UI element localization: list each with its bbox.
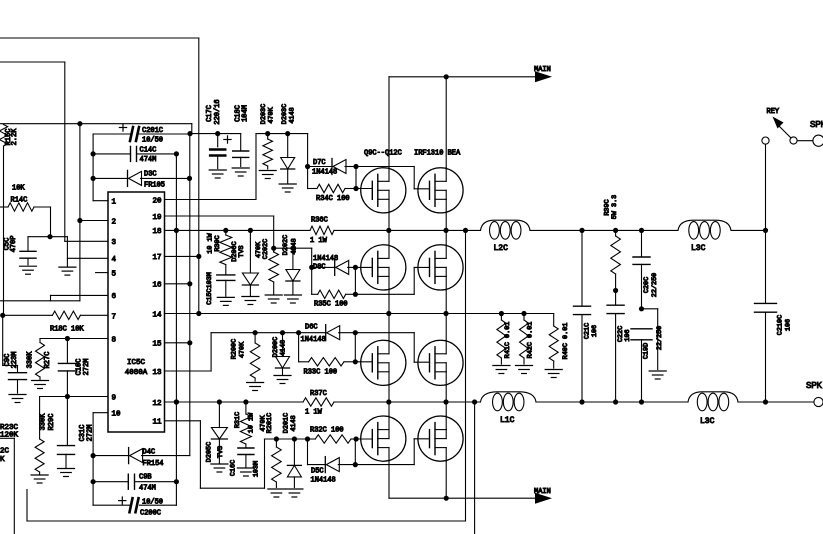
wire pair4 gate node	[355, 439, 372, 465]
wire pin11 jog	[165, 421, 265, 488]
wire pin10 rail	[91, 413, 109, 506]
label IC5C	[125, 359, 148, 377]
ground C202C	[265, 295, 282, 303]
resistor C202C 470K	[269, 248, 279, 294]
svg-text:C16C: C16C	[230, 460, 238, 476]
wire pair2 feed row	[271, 246, 312, 251]
wire bus402 to SPK	[766, 401, 814, 403]
svg-text:L3C: L3C	[691, 244, 706, 253]
svg-text:15: 15	[152, 341, 162, 349]
ground R201C	[268, 489, 285, 497]
wire switch to SPK	[797, 140, 813, 142]
svg-text:L1C: L1C	[500, 416, 515, 425]
wire top bus C	[0, 123, 192, 125]
wire pin1 rail	[91, 134, 109, 201]
ground C5C	[20, 266, 37, 274]
svg-text:330K: 330K	[40, 413, 48, 431]
svg-text:103M: 103M	[252, 461, 260, 477]
diode D205C TVS	[211, 402, 227, 463]
svg-text:D7C: D7C	[313, 159, 326, 167]
svg-text:10K: 10K	[12, 185, 25, 193]
svg-text:D3C: D3C	[144, 171, 157, 179]
svg-text:470P: 470P	[10, 236, 18, 253]
label R22C fragment	[0, 448, 10, 465]
junction bus314	[521, 311, 526, 316]
wire pair1 gate node	[356, 167, 372, 189]
svg-text:2: 2	[112, 218, 117, 226]
junction bus230	[248, 228, 253, 233]
svg-text:R37C: R37C	[310, 390, 327, 398]
label D6C	[301, 324, 326, 345]
label D206C TVS	[231, 241, 246, 261]
svg-text:220/16: 220/16	[214, 99, 222, 124]
svg-text:14: 14	[152, 311, 162, 319]
label R41C	[504, 322, 512, 359]
label C10C	[76, 359, 91, 376]
diode D4C	[93, 448, 190, 464]
wire pair4 gate2 jog	[355, 439, 429, 465]
wire pair3 feed row	[211, 330, 326, 335]
wire pair3 gate2 jog	[355, 333, 429, 363]
label Q9C--Q12C	[364, 150, 402, 158]
label REY	[767, 108, 780, 116]
resistor R34C	[308, 184, 359, 192]
svg-text:R36C: R36C	[311, 217, 328, 225]
capacitor C17C	[210, 134, 231, 169]
transistor Q11C (left)	[361, 245, 406, 290]
svg-text:4080A: 4080A	[125, 369, 148, 377]
ground R42C	[516, 366, 533, 374]
ground D203C 4148	[279, 184, 296, 192]
svg-text:R29C: R29C	[48, 414, 56, 431]
junction bus402	[217, 399, 222, 404]
label SPK bottom	[806, 381, 823, 390]
wire frame right riser	[465, 230, 467, 521]
capacitor C18C	[233, 134, 249, 167]
label R31C	[234, 412, 256, 433]
ground D203C 470K	[259, 171, 276, 179]
svg-text:C19D: C19D	[643, 343, 651, 359]
svg-text:R34C 100: R34C 100	[316, 195, 350, 203]
label C16C 103M	[230, 460, 261, 477]
junction bus402	[613, 399, 618, 404]
ground R29C	[31, 475, 48, 483]
wire vertical from bus A to pins 17/14	[198, 38, 200, 314]
ground D206C	[242, 297, 259, 305]
svg-text:5W 3.3: 5W 3.3	[611, 195, 619, 219]
resistor R37C	[303, 398, 334, 406]
wire pin2 riser	[77, 124, 108, 301]
ground R27C	[32, 381, 49, 389]
label L3C bottom	[700, 417, 715, 426]
capacitor C31C	[58, 397, 75, 468]
svg-text:17: 17	[152, 254, 161, 262]
wire bottom frame	[27, 490, 466, 522]
ground D202C	[284, 295, 301, 303]
label C201C	[142, 127, 163, 145]
terminal SPK bottom	[814, 397, 823, 406]
svg-text:12: 12	[152, 400, 161, 408]
label D8C	[313, 255, 338, 272]
wire bus B to pin 3	[0, 62, 108, 241]
label R18C	[50, 326, 84, 334]
svg-text:D8C: D8C	[313, 264, 326, 272]
svg-text:D4C: D4C	[143, 449, 156, 457]
switch REY contact left	[762, 137, 769, 144]
svg-text:C15C103M: C15C103M	[206, 272, 214, 305]
junction bus230	[386, 228, 391, 233]
junction bus314	[196, 311, 201, 316]
label C9C	[4, 352, 19, 369]
capacitor C20C	[633, 230, 650, 311]
label IRF1310 BEA	[414, 150, 461, 158]
resistor R33C	[299, 333, 358, 366]
svg-text:7: 7	[112, 314, 117, 322]
label L2C	[494, 244, 509, 253]
junction bus230	[223, 228, 228, 233]
svg-text:1 1W: 1 1W	[310, 237, 328, 245]
wire bus133 segment B	[256, 131, 308, 136]
svg-text:11: 11	[152, 419, 162, 427]
wire stub bus C down to node	[191, 124, 193, 134]
junction bus402	[763, 399, 768, 404]
svg-text:19: 19	[152, 214, 161, 222]
svg-text:470K: 470K	[239, 341, 247, 358]
wire output drop	[474, 402, 476, 534]
svg-text:FR105: FR105	[144, 182, 165, 190]
diode D201C	[287, 439, 301, 488]
ground C17C	[209, 170, 226, 178]
svg-text:R200C: R200C	[231, 339, 239, 359]
label MAIN top	[534, 66, 551, 74]
wire pin6 run	[0, 295, 108, 300]
label R34C	[316, 195, 350, 203]
terminal SPK top	[813, 135, 823, 146]
label C200C	[140, 499, 163, 518]
svg-text:R201C: R201C	[266, 413, 274, 433]
ground D200C	[274, 376, 291, 384]
wire rail B	[445, 77, 447, 498]
resistor R200C	[250, 333, 260, 381]
svg-text:1N4148: 1N4148	[312, 169, 337, 177]
svg-text:TVS: TVS	[238, 245, 246, 257]
resistor R14C	[0, 203, 51, 211]
svg-text:C17C: C17C	[206, 105, 214, 122]
svg-text:470K: 470K	[267, 106, 275, 123]
svg-text:R27C: R27C	[44, 352, 52, 369]
svg-text:13: 13	[152, 369, 162, 377]
svg-text:C200C: C200C	[140, 510, 161, 518]
label D7C	[312, 159, 337, 177]
svg-text:4148: 4148	[290, 238, 298, 254]
junction bus402	[472, 399, 477, 404]
capacitor C10C	[58, 339, 76, 397]
svg-text:9: 9	[112, 394, 117, 402]
label R32C	[310, 427, 344, 435]
wire bus230	[165, 229, 766, 231]
resistor R201C	[272, 439, 282, 488]
svg-text:IRF1310 BEA: IRF1310 BEA	[414, 150, 461, 158]
label D3C	[144, 171, 165, 190]
resistor R18C	[3, 311, 108, 319]
wire pin16 row	[165, 283, 190, 285]
svg-text:10: 10	[112, 411, 122, 419]
junction bus230	[463, 228, 468, 233]
svg-text:R31C: R31C	[234, 412, 242, 428]
wire right rail x190	[187, 134, 192, 456]
resistor R40C	[549, 314, 558, 369]
wire bus402	[165, 401, 766, 403]
svg-text:R42C 0.01: R42C 0.01	[526, 322, 534, 359]
label L1C	[500, 416, 515, 425]
label D201C	[283, 413, 299, 433]
label D203C 470K	[260, 104, 275, 124]
svg-text:22/250: 22/250	[651, 273, 659, 297]
wire switch drop	[765, 144, 767, 230]
label R23C	[0, 424, 19, 440]
svg-text:R14C: R14C	[11, 197, 28, 205]
svg-text:4148: 4148	[290, 415, 298, 431]
svg-text:K: K	[0, 456, 5, 464]
label D200C	[272, 337, 288, 357]
transistor Q15C (left)	[361, 416, 406, 461]
label D5C	[311, 468, 336, 485]
wire bus133 segment A	[190, 131, 241, 136]
svg-text:C202C: C202C	[262, 239, 270, 259]
junction bus402	[579, 399, 584, 404]
svg-text:4: 4	[112, 256, 117, 264]
svg-text:18: 18	[152, 228, 161, 236]
svg-text:D6C: D6C	[305, 324, 318, 332]
svg-text:8: 8	[112, 336, 117, 344]
inductor L3C top	[678, 220, 731, 239]
junction bus314	[443, 311, 448, 316]
ground C9C	[9, 395, 26, 403]
svg-text:10/50: 10/50	[142, 137, 163, 145]
svg-text:R35C 100: R35C 100	[314, 301, 348, 309]
ground R200C	[247, 383, 264, 391]
svg-text:1N4148: 1N4148	[301, 336, 326, 344]
wire pair1 gate feed	[305, 134, 310, 189]
wire pin9 row	[40, 394, 108, 399]
wire pin13 jog	[165, 333, 212, 371]
wire pin5 stub	[96, 272, 108, 274]
inductor L2C	[481, 220, 531, 239]
wire pin19 row	[165, 216, 274, 251]
svg-text:R41C 0.01: R41C 0.01	[504, 322, 512, 359]
transistor Q14C (right)	[418, 340, 463, 385]
diode D203C 4148	[281, 134, 295, 183]
svg-text:FR154: FR154	[143, 460, 164, 468]
svg-text:MAIN: MAIN	[534, 488, 551, 496]
capacitor C14C	[93, 146, 179, 161]
svg-text:2.2K: 2.2K	[11, 128, 19, 146]
svg-text:1N4148: 1N4148	[313, 255, 338, 263]
resistor R31C	[240, 402, 251, 444]
capacitor C19D	[631, 329, 652, 402]
svg-text:C20C: C20C	[643, 277, 651, 293]
wire pair4 feed row	[265, 436, 311, 441]
wire pin8 row	[40, 336, 108, 341]
svg-text:D202C: D202C	[282, 235, 290, 255]
label R14C	[11, 185, 28, 205]
ground D201C	[286, 489, 303, 497]
capacitor C5C	[20, 237, 36, 265]
svg-text:L3C: L3C	[700, 417, 715, 426]
resistor R39C	[611, 230, 621, 293]
wire C19D ground branch	[642, 309, 658, 370]
transistor Q13C (left)	[361, 340, 406, 385]
wire pair2 gate2 jog	[355, 267, 429, 294]
ground C15C	[217, 297, 234, 305]
capacitor C210C	[755, 230, 777, 402]
svg-text:104M: 104M	[242, 105, 250, 122]
diode D5C	[308, 439, 358, 473]
label R30C	[207, 232, 223, 253]
junction bus402	[243, 399, 248, 404]
label L3C top	[691, 244, 706, 253]
svg-text:10/50: 10/50	[142, 499, 163, 507]
junction bus230	[613, 228, 618, 233]
label R33C	[304, 369, 338, 377]
svg-text:16: 16	[152, 282, 162, 290]
svg-text:330K: 330K	[27, 351, 35, 369]
wire pin20 row	[165, 134, 257, 200]
resistor R35C	[312, 290, 358, 298]
label R200C	[231, 339, 247, 359]
capacitor C201C	[93, 124, 190, 141]
junction bus230	[639, 228, 644, 233]
label MAIN bottom	[534, 488, 551, 496]
svg-text:REY: REY	[767, 108, 780, 116]
capacitor C9B	[93, 474, 176, 489]
label R36C	[310, 217, 328, 246]
svg-text:3: 3	[112, 239, 117, 247]
svg-text:L2C: L2C	[494, 244, 509, 253]
ground R40C	[545, 370, 562, 378]
label C17C	[206, 99, 222, 124]
label R27C	[27, 351, 53, 369]
junction bus314	[386, 311, 391, 316]
svg-text:R33C 100: R33C 100	[304, 369, 338, 377]
svg-text:5: 5	[112, 270, 117, 278]
junction bus402	[639, 399, 644, 404]
wire pin17 row	[165, 254, 202, 259]
label C18C	[234, 105, 249, 122]
svg-text:C9B: C9B	[139, 474, 152, 482]
ground C16C	[237, 468, 254, 476]
svg-text:223M: 223M	[11, 352, 19, 369]
ground R41C	[493, 366, 510, 374]
resistor R36C	[310, 226, 334, 234]
svg-text:TVS: TVS	[217, 446, 225, 458]
label R42C	[526, 322, 534, 359]
capacitor C200C	[93, 497, 176, 512]
wire pair2 gate node	[355, 267, 372, 294]
wire pair2 gate feed	[309, 248, 314, 294]
junction bus314	[499, 311, 504, 316]
capacitor C15C	[217, 265, 235, 297]
svg-text:1N4148: 1N4148	[311, 477, 336, 485]
label C210C	[777, 315, 793, 335]
label R29C	[40, 413, 57, 431]
diode D200C	[276, 333, 290, 375]
label R201C	[260, 413, 274, 433]
wire C9C riser	[3, 315, 18, 372]
label SPK top	[810, 120, 823, 129]
svg-text:474M: 474M	[139, 485, 156, 493]
junction bus402	[174, 399, 179, 404]
label R39C	[604, 195, 620, 219]
transistor Q10C (right)	[418, 168, 463, 213]
label 470K C202C	[255, 239, 270, 259]
diode D7C	[308, 159, 359, 175]
diode D8C	[312, 259, 358, 275]
diode D202C	[286, 248, 300, 294]
diode D206C TVS	[242, 230, 258, 295]
wire rail A	[388, 77, 390, 498]
labels IC pin numbers	[112, 197, 162, 426]
label C20C	[643, 273, 659, 297]
ground pin4	[59, 267, 76, 275]
label R15C	[5, 128, 19, 146]
node bus C / pin2 riser	[77, 121, 82, 126]
label D4C	[143, 449, 164, 469]
label R37C	[305, 390, 327, 417]
svg-text:R18C 10K: R18C 10K	[50, 326, 84, 334]
op-amp IC5C 4080A box	[108, 192, 165, 432]
capacitor C22C	[607, 291, 624, 403]
label C9B	[139, 474, 156, 493]
resistor R29C	[35, 397, 44, 475]
label C5C	[4, 236, 18, 253]
diode D6C	[326, 325, 358, 341]
resistor D203C 470K	[263, 134, 273, 169]
svg-text:SPK: SPK	[806, 381, 823, 390]
resistor R41C	[497, 314, 506, 365]
junction bus230	[443, 228, 448, 233]
capacitor C9C	[9, 373, 27, 393]
junction bus402	[443, 399, 448, 404]
svg-text:R30C: R30C	[214, 235, 222, 251]
transistor Q12C (right)	[418, 245, 463, 290]
svg-text:IC5C: IC5C	[127, 359, 146, 367]
junction bus230	[579, 228, 584, 233]
wire MAIN top	[389, 71, 552, 82]
svg-text:10 1W: 10 1W	[248, 412, 256, 433]
label D203C 4148	[281, 104, 296, 124]
capacitor C16C	[238, 444, 254, 467]
svg-text:C210C: C210C	[777, 315, 785, 335]
svg-text:SPK: SPK	[810, 120, 823, 129]
switch REY pole	[773, 117, 798, 145]
transistor Q9C (left)	[361, 168, 406, 213]
svg-text:106: 106	[591, 325, 599, 337]
label C31C	[79, 425, 94, 442]
label D205C TVS	[205, 442, 225, 462]
svg-text:474M: 474M	[140, 156, 157, 164]
label C14C	[140, 147, 157, 165]
ground C19D	[649, 371, 666, 379]
inductor L3C bottom	[688, 392, 738, 411]
svg-text:2C: 2C	[0, 448, 10, 456]
wire R22C lead	[0, 438, 14, 534]
resistor R27C	[36, 339, 45, 380]
inductor L1C	[481, 392, 537, 411]
diode D3C	[93, 170, 192, 186]
svg-text:MAIN: MAIN	[534, 66, 551, 74]
resistor R32C	[308, 435, 359, 443]
